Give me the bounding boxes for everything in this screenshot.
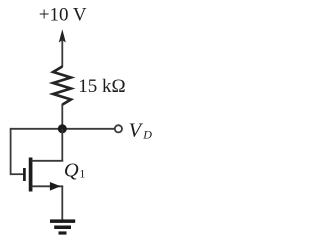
svg-text:1: 1 xyxy=(79,167,85,181)
svg-text:15 kΩ: 15 kΩ xyxy=(78,76,125,97)
svg-text:Q: Q xyxy=(64,159,79,181)
svg-text:V: V xyxy=(129,120,144,142)
svg-text:+10 V: +10 V xyxy=(39,4,87,25)
svg-text:D: D xyxy=(142,128,152,142)
